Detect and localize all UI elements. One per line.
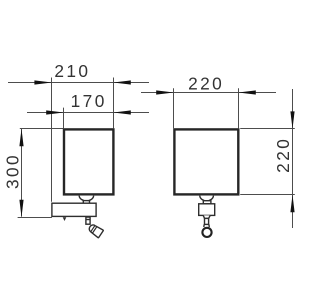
svg-text:210: 210 xyxy=(54,61,90,81)
svg-text:220: 220 xyxy=(273,137,293,173)
svg-text:170: 170 xyxy=(71,91,107,111)
svg-text:220: 220 xyxy=(188,73,224,93)
svg-text:300: 300 xyxy=(3,153,23,189)
